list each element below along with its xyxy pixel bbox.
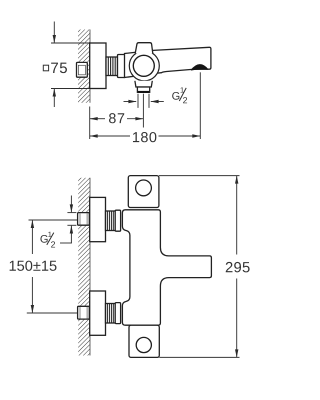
svg-text:2: 2	[51, 240, 56, 250]
svg-text:180: 180	[132, 130, 157, 146]
svg-text:295: 295	[225, 260, 251, 276]
svg-text:75: 75	[50, 60, 68, 77]
svg-text:87: 87	[108, 111, 125, 127]
svg-text:150±15: 150±15	[8, 259, 57, 275]
svg-text:2: 2	[183, 95, 188, 105]
